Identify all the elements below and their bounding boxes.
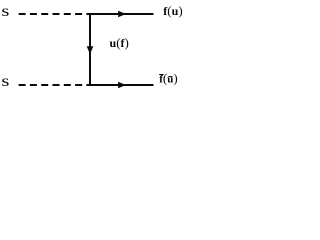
wire: outgoing fermion line f(u) (top, solid) [89,13,154,15]
svg-text:f(u): f(u) [159,71,177,86]
wire: incoming scalar s (top, dashed propagator) [19,13,90,15]
overbar of u in fbar(ubar) [168,76,172,77]
svg-text:s: s [1,2,9,19]
wire: incoming scalar s (bottom, dashed propagator) [19,84,90,86]
wire: outgoing antifermion line fbar(ubar) (bottom, solid) [89,84,154,86]
svg-text:u(f): u(f) [110,35,129,50]
overbar of f in fbar(ubar) [159,74,163,75]
arrow on top fermion line (points right) [119,11,125,16]
svg-text:f(u): f(u) [163,3,182,18]
svg-text:s: s [1,72,9,89]
wire: internal fermion propagator u(f) (vertical) [89,13,91,86]
arrow on internal line (points down) [87,47,92,54]
arrow on bottom fermion line (points right) [119,82,125,87]
